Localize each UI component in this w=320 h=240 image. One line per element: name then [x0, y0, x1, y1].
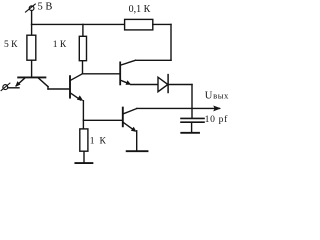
wire corner down to Q3 collector — [170, 24, 172, 60]
wire Q3 emitter to diode — [131, 84, 158, 86]
terminal +5V — [26, 4, 36, 12]
ground under capacitor — [181, 132, 199, 134]
svg-text:5 К: 5 К — [4, 40, 18, 50]
ground under Q4 — [127, 150, 148, 152]
wire R2 bottom to Q2 collector node — [82, 61, 84, 74]
wire terminal to rail — [31, 11, 33, 25]
wire R4 to ground — [83, 151, 85, 163]
resistor R2 1K — [79, 36, 86, 60]
wire Q2 collector to Q3 base — [82, 73, 119, 75]
wire R3 right to corner — [153, 23, 171, 25]
transistor Q1 — [15, 77, 48, 89]
wire Q2 emitter down — [82, 101, 84, 129]
wire input to Q1 emitter — [8, 87, 19, 89]
capacitor C1 10pf — [181, 118, 204, 122]
resistor R3 0.1K — [125, 19, 153, 30]
wire Q4 emitter down — [136, 131, 138, 151]
wire Q1 collector to Q2 base — [48, 88, 69, 90]
transistor Q2 — [70, 74, 83, 101]
svg-text:Uвых: Uвых — [205, 91, 229, 102]
wire output node down to capacitor — [191, 85, 193, 118]
svg-text:10 pf: 10 pf — [205, 114, 229, 125]
ground under R4 — [75, 162, 92, 164]
wire Q3 collector horizontal — [136, 59, 172, 61]
transistor Q4 — [123, 108, 137, 132]
wire rail to R1 top — [31, 24, 33, 35]
wire emitter node to Q4 base — [83, 119, 122, 121]
wire diode to output node — [168, 84, 192, 86]
terminal input — [1, 83, 10, 91]
svg-text:5 В: 5 В — [38, 1, 53, 12]
resistor R1 5K — [27, 35, 36, 60]
resistor R4 1K — [80, 129, 88, 151]
diode D1 — [158, 75, 168, 93]
wire output line with arrow — [137, 106, 221, 112]
svg-text:1 К: 1 К — [53, 40, 67, 50]
wire capacitor to ground — [191, 123, 193, 133]
svg-text:1К: 1К — [90, 137, 107, 147]
wire top rail — [32, 23, 125, 25]
transistor Q3 — [120, 60, 135, 85]
svg-text:0,1 К: 0,1 К — [129, 4, 151, 15]
wire R1 bottom to Q1 base — [31, 60, 33, 76]
wire rail to R2 top — [82, 24, 84, 36]
